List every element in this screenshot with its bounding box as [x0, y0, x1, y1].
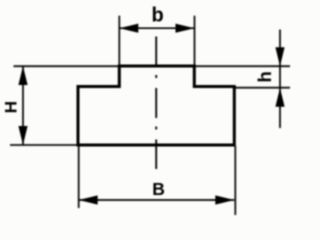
svg-text:H: H	[1, 101, 20, 113]
svg-text:B: B	[152, 179, 165, 199]
svg-text:b: b	[152, 4, 164, 26]
svg-text:h: h	[254, 71, 275, 82]
